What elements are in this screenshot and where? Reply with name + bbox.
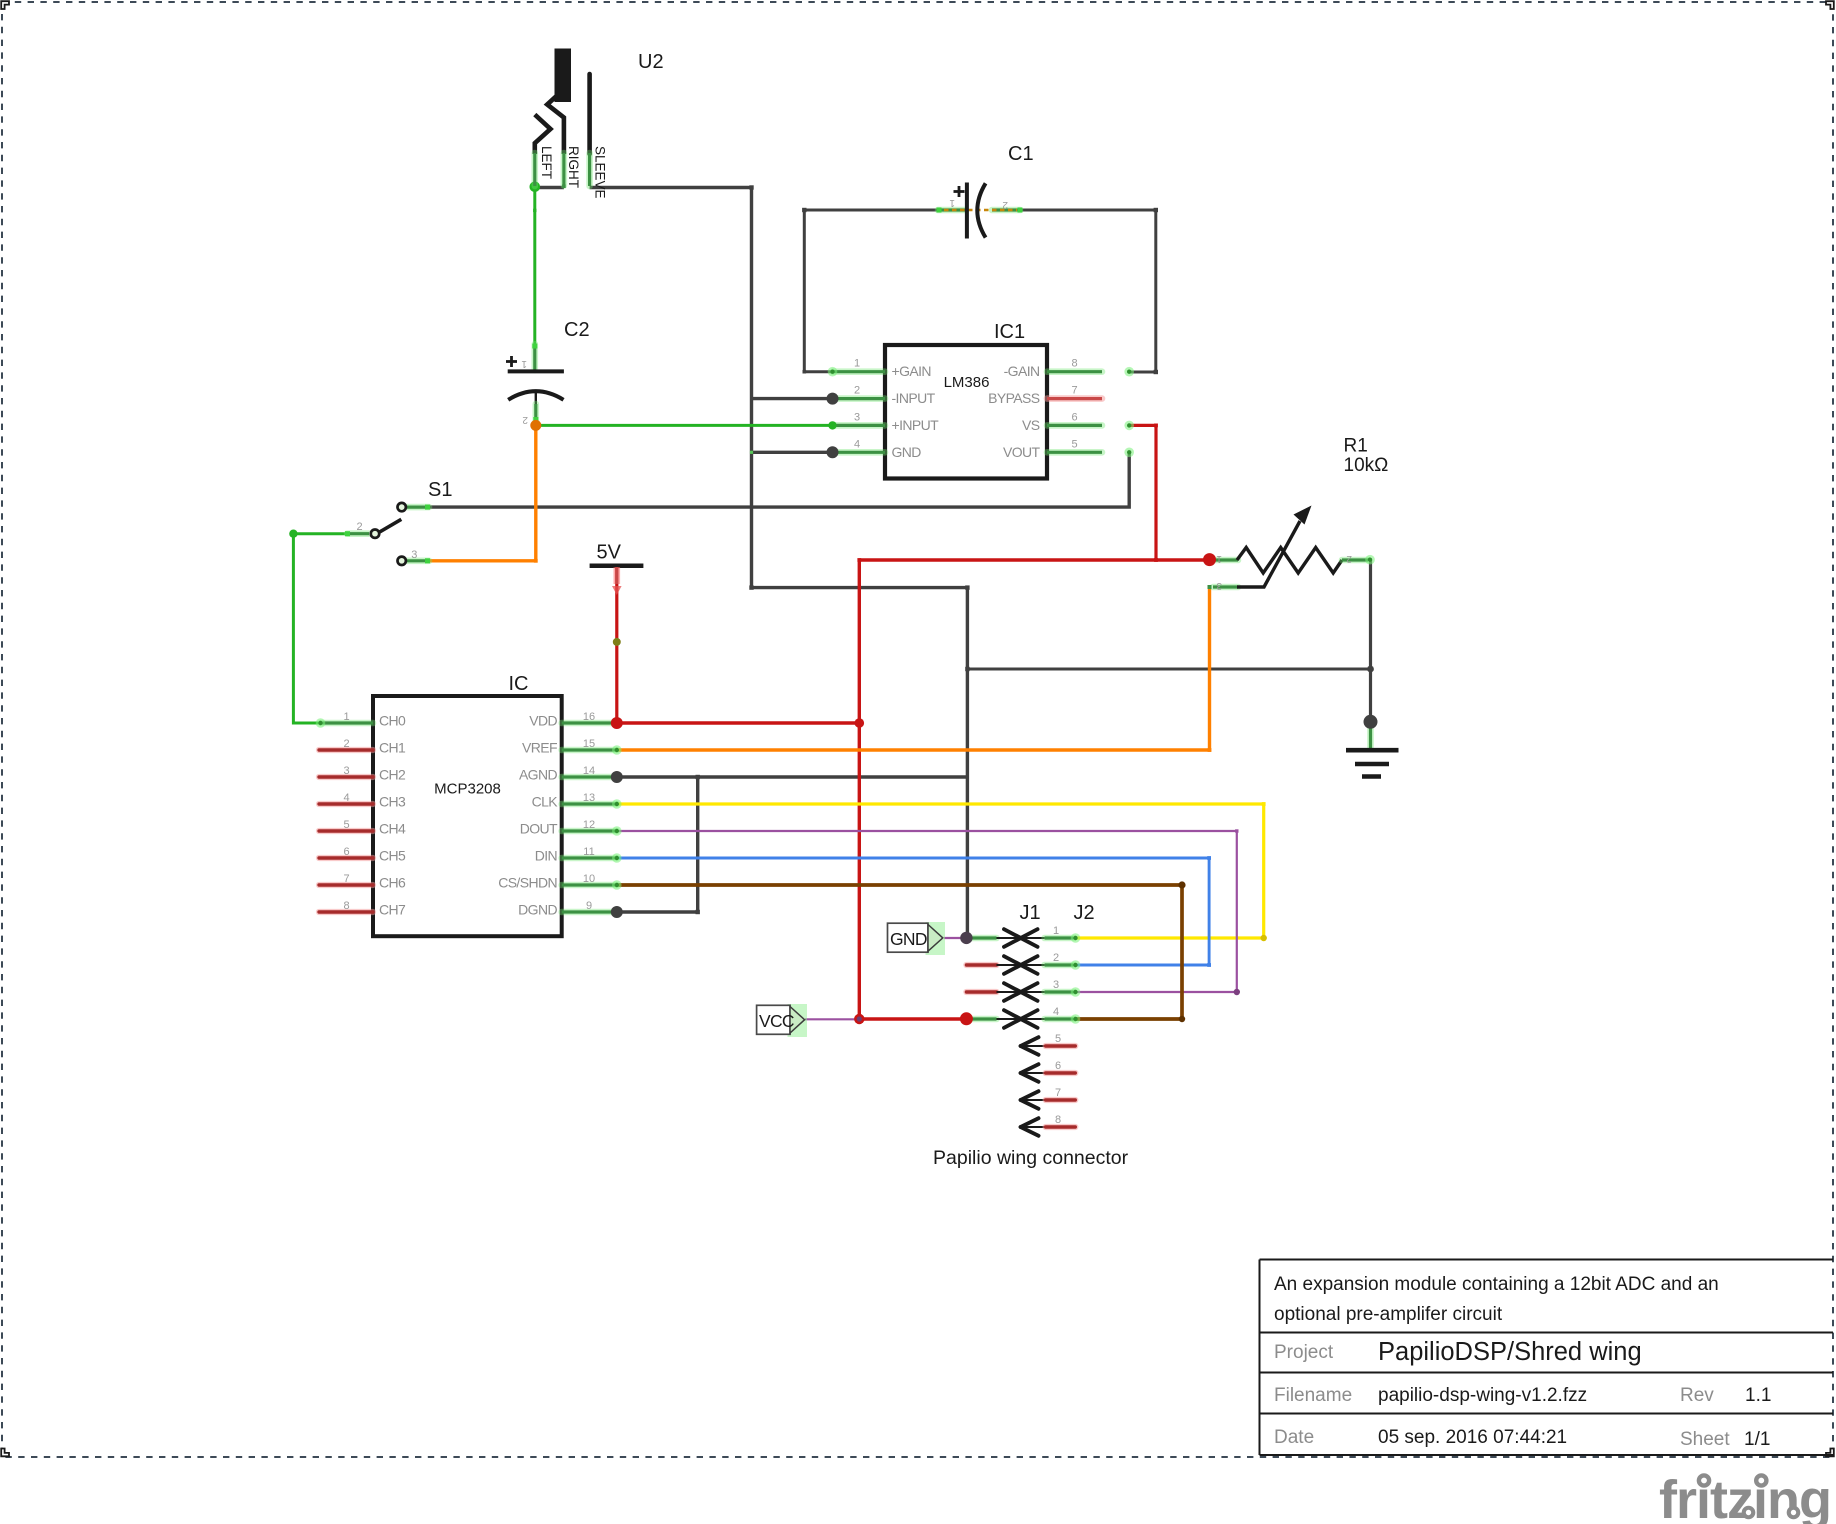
svg-text:CH4: CH4: [379, 821, 406, 837]
svg-text:C2: C2: [564, 319, 590, 341]
svg-text:U2: U2: [638, 51, 664, 73]
svg-text:Date: Date: [1274, 1427, 1314, 1448]
wire: green net C2 pin 2 to IC1 +INPUT pin 3: [536, 424, 833, 427]
svg-text:3: 3: [343, 765, 349, 777]
connector row 3: J1 pin 3 / J2 pin 3 (crossed arrows): [966, 983, 1080, 1001]
svg-text:Rev: Rev: [1680, 1385, 1714, 1406]
svg-text:+GAIN: +GAIN: [892, 363, 931, 379]
junction dot at IC1 +INPUT (green): [828, 421, 836, 429]
svg-text:3: 3: [854, 411, 860, 423]
svg-text:J1: J1: [1020, 902, 1041, 924]
op-amp IC1 LM386 body: [885, 345, 1047, 479]
IC pin 13 CLK: [562, 801, 617, 808]
wire: orange net MCP3208 VREF to R1 wiper pin 3: [617, 587, 1210, 750]
frame corner mark bottom-right: [1826, 1449, 1834, 1457]
5V power symbol: [590, 566, 644, 595]
IC pin 4 CH3: [319, 801, 373, 807]
svg-text:RIGHT: RIGHT: [566, 146, 581, 188]
svg-text:1.1: 1.1: [1745, 1385, 1771, 1406]
svg-text:7: 7: [1055, 1087, 1061, 1099]
svg-text:S1: S1: [428, 479, 452, 501]
junction dot VCC flag on red net: [854, 1014, 864, 1024]
frame corner mark bottom-left: [1, 1449, 9, 1457]
svg-text:LEFT: LEFT: [539, 146, 554, 179]
IC pin 11 DIN: [562, 855, 617, 862]
connector J2 pin 8 (arrow, unconnected): [1020, 1118, 1075, 1136]
IC pin 9 DGND: [562, 909, 617, 916]
IC wire-end markers right side: [316, 718, 326, 728]
svg-text:J2: J2: [1074, 902, 1095, 924]
wire: red net IC1 VS pin 6 branch: [1129, 425, 1156, 560]
IC1 pin 6 VS: [1047, 422, 1102, 429]
svg-text:-GAIN: -GAIN: [1004, 363, 1040, 379]
junction dot red bus at VDD row: [855, 718, 865, 728]
svg-text:CLK: CLK: [532, 794, 559, 810]
wire: purple net MCP3208 DOUT to J2 pin 3: [617, 831, 1237, 992]
wire: MCP3208 DGND to AGND: [617, 777, 698, 912]
frame corner mark top-right: [1826, 1, 1834, 9]
svg-text:8: 8: [1071, 358, 1077, 370]
svg-text:CH3: CH3: [379, 794, 406, 810]
IC pin 3 CH2: [319, 774, 373, 780]
junction dot red net at R1 pin 1: [1203, 553, 1216, 566]
svg-text:15: 15: [583, 738, 595, 750]
IC pin 10 CS/SHDN: [562, 882, 617, 889]
VCC net flag: [757, 1004, 807, 1037]
IC1 pin 8 -GAIN: [1047, 368, 1102, 375]
svg-text:2: 2: [1346, 553, 1352, 564]
svg-text:5V: 5V: [597, 542, 622, 564]
svg-text:10kΩ: 10kΩ: [1344, 455, 1389, 476]
svg-text:3: 3: [1216, 580, 1222, 591]
wire: red vertical bus to R1 pin1 / VCC row: [858, 560, 861, 1019]
frame corner mark top-left: [1, 1, 9, 9]
IC1 pin 5 VOUT: [1047, 449, 1102, 456]
wire: jack SLEEVE net to IC1 (sleeve ground bus): [590, 188, 968, 938]
wire: red VDD net to vertical bus x=859: [617, 721, 860, 724]
svg-text:SLEEVE: SLEEVE: [593, 146, 608, 199]
svg-text:GND: GND: [890, 929, 927, 949]
junction dot VCC red net / J1 pin 4: [960, 1012, 973, 1025]
wire: IC1 VOUT to switch S1 pin 1: [429, 452, 1129, 507]
svg-text:3: 3: [411, 549, 417, 561]
junction dot at IC1 GND: [827, 446, 839, 458]
IC1 pin 4 GND: [833, 449, 885, 456]
svg-text:8: 8: [343, 900, 349, 912]
svg-text:GND: GND: [892, 444, 922, 460]
IC pin 1 CH0: [321, 720, 373, 727]
wire: purple VCC flag to red net: [805, 1018, 859, 1020]
wire: R1 pin 2 down to ground junction: [1369, 560, 1372, 722]
svg-text:CH1: CH1: [379, 740, 406, 756]
svg-text:1: 1: [521, 358, 527, 369]
connector row 2: J1 pin 2 / J2 pin 2 (crossed arrows): [966, 956, 1080, 974]
IC1 pin 2 -INPUT: [833, 395, 885, 402]
IC1 pin 3 +INPUT: [833, 422, 885, 429]
capacitor C1: [937, 183, 1023, 239]
svg-text:VDD: VDD: [529, 713, 557, 729]
svg-text:CH2: CH2: [379, 767, 406, 783]
svg-text:2: 2: [343, 738, 349, 750]
svg-text:4: 4: [1053, 1006, 1059, 1018]
svg-text:Papilio wing connector: Papilio wing connector: [933, 1147, 1129, 1169]
svg-text:VOUT: VOUT: [1003, 444, 1041, 460]
svg-text:DGND: DGND: [518, 902, 557, 918]
junction dot at ground symbol: [1364, 715, 1378, 729]
wire: brown net MCP3208 CS/SHDN to J2 pin 4: [617, 885, 1182, 1019]
svg-text:4: 4: [854, 438, 860, 450]
capacitor C2: [506, 344, 564, 423]
IC pin 16 VDD: [562, 720, 617, 727]
svg-text:9: 9: [586, 900, 592, 912]
svg-text:16: 16: [583, 711, 595, 723]
svg-text:CH5: CH5: [379, 848, 406, 864]
connector J2 pin 5 (arrow, unconnected): [1020, 1037, 1075, 1055]
svg-text:Sheet: Sheet: [1680, 1429, 1730, 1450]
wire: purple GND flag to J1 pin 1: [944, 937, 966, 939]
svg-text:IC: IC: [509, 673, 529, 695]
svg-text:VCC: VCC: [759, 1011, 794, 1031]
svg-text:6: 6: [1055, 1060, 1061, 1072]
junction: S1 pin 2 green net: [289, 530, 297, 538]
connector J2 pin 7 (arrow, unconnected): [1020, 1091, 1075, 1109]
svg-text:6: 6: [1071, 411, 1077, 423]
svg-text:4: 4: [343, 792, 349, 804]
ADC IC MCP3208 body: [373, 696, 562, 936]
IC pin 6 CH5: [319, 855, 373, 861]
GND net flag: [888, 922, 946, 955]
svg-text:AGND: AGND: [519, 767, 558, 783]
svg-text:1: 1: [1216, 553, 1222, 564]
R1 wire-end markers: [1365, 555, 1375, 565]
svg-text:12: 12: [583, 819, 595, 831]
ground symbol: [1346, 726, 1399, 777]
svg-text:11: 11: [583, 846, 594, 858]
svg-text:3: 3: [1053, 979, 1059, 991]
svg-text:DOUT: DOUT: [520, 821, 558, 837]
svg-text:05 sep. 2016 07:44:21: 05 sep. 2016 07:44:21: [1378, 1427, 1567, 1448]
wire: red net to VCC flag junction: [859, 1017, 966, 1020]
wire: sleeve bus to IC1 GND pin 4: [752, 451, 834, 454]
svg-text:7: 7: [1071, 385, 1077, 397]
svg-text:VREF: VREF: [522, 740, 557, 756]
junction: C2 pin2 / +INPUT / orange net: [530, 420, 541, 431]
svg-text:CS/SHDN: CS/SHDN: [498, 875, 557, 891]
svg-text:optional pre-amplifer circuit: optional pre-amplifer circuit: [1274, 1304, 1503, 1325]
svg-text:5: 5: [1055, 1033, 1061, 1045]
junction: ground wire meets R1 pin2 wire: [1367, 666, 1374, 673]
fritzing logo: [1659, 1470, 1831, 1524]
svg-text:6: 6: [343, 846, 349, 858]
IC pin 7 CH6: [319, 882, 373, 888]
svg-text:BYPASS: BYPASS: [988, 390, 1040, 406]
svg-text:DIN: DIN: [535, 848, 557, 864]
svg-text:PapilioDSP/Shred wing: PapilioDSP/Shred wing: [1378, 1338, 1642, 1366]
svg-text:IC1: IC1: [994, 321, 1025, 343]
junction dot MCP3208 VDD (red): [611, 717, 623, 729]
junction dot MCP3208 DGND: [611, 906, 623, 918]
svg-text:2: 2: [1002, 199, 1008, 210]
svg-text:2: 2: [854, 385, 860, 397]
svg-text:1: 1: [1053, 925, 1059, 937]
wire: ground bus to potentiometer pin 2 / GND symbol: [967, 668, 1370, 671]
junction: 5V pin to red wire (olive marker): [613, 638, 621, 646]
svg-text:VS: VS: [1022, 417, 1040, 433]
IC1 pin 1 +GAIN: [833, 368, 885, 375]
IC pin 14 AGND: [562, 774, 617, 781]
IC pin 8 CH7: [319, 909, 373, 915]
svg-text:1: 1: [854, 358, 860, 370]
wire: blue net MCP3208 DIN to J2 pin 2: [617, 858, 1209, 965]
svg-text:2: 2: [1053, 952, 1059, 964]
switch S1: [345, 503, 430, 565]
svg-text:1: 1: [949, 197, 955, 208]
title block frame: [1260, 1260, 1834, 1456]
svg-text:C1: C1: [1008, 143, 1034, 165]
junction dot GND flag / J1 pin 1: [960, 932, 972, 944]
audio jack U2: [535, 49, 590, 189]
IC pin 5 CH4: [319, 828, 373, 834]
svg-text:1: 1: [343, 711, 349, 723]
svg-text:CH0: CH0: [379, 713, 406, 729]
svg-text:-INPUT: -INPUT: [892, 390, 936, 406]
IC pin 15 VREF: [562, 747, 617, 754]
svg-text:7: 7: [343, 873, 349, 885]
svg-text:MCP3208: MCP3208: [434, 781, 501, 798]
svg-text:+INPUT: +INPUT: [892, 417, 940, 433]
svg-text:5: 5: [1071, 438, 1077, 450]
potentiometer R1 10k: [1213, 506, 1368, 588]
svg-text:10: 10: [583, 873, 595, 885]
svg-text:An expansion module containing: An expansion module containing a 12bit A…: [1274, 1274, 1719, 1295]
wire: MCP3208 AGND to ground bus: [617, 775, 967, 778]
wire: jack LEFT to RIGHT pin segment: [535, 186, 564, 189]
wire: orange net C2 pin2 junction to switch S1 pin 3: [429, 425, 536, 560]
svg-text:8: 8: [1055, 1114, 1061, 1126]
connector J2 pin 6 (arrow, unconnected): [1020, 1064, 1075, 1082]
svg-text:1/1: 1/1: [1744, 1429, 1770, 1450]
IC1 pin 7 BYPASS (unconnected): [1047, 395, 1102, 402]
wire: green net jack LEFT to C2 pin 1: [533, 188, 536, 346]
svg-text:5: 5: [343, 819, 349, 831]
connector row 4: J1 pin 4 / J2 pin 4 (crossed arrows): [969, 1010, 1080, 1028]
wire: sleeve bus to IC1 -INPUT pin 2: [752, 397, 834, 400]
svg-text:LM386: LM386: [944, 374, 990, 391]
IC1 wire-end markers: [828, 367, 838, 377]
IC pin 12 DOUT: [562, 828, 617, 835]
junction: jack LEFT pin / C2 net: [530, 182, 541, 193]
svg-text:Filename: Filename: [1274, 1385, 1352, 1406]
svg-text:14: 14: [583, 765, 595, 777]
junction dot MCP3208 AGND: [611, 771, 623, 783]
connector row 1: J1 pin 1 / J2 pin 1 (crossed arrows): [969, 929, 1080, 947]
wire: red 5V supply to MCP3208 VDD: [615, 566, 618, 723]
junction dot at IC1 -INPUT: [827, 393, 839, 405]
svg-text:2: 2: [357, 521, 363, 533]
svg-text:13: 13: [583, 792, 595, 804]
svg-text:Project: Project: [1274, 1342, 1334, 1363]
svg-text:papilio-dsp-wing-v1.2.fzz: papilio-dsp-wing-v1.2.fzz: [1378, 1385, 1587, 1406]
IC pin 2 CH1: [319, 747, 373, 753]
wire: C1 left lead to IC1 +GAIN pin 1: [804, 210, 940, 372]
svg-text:CH6: CH6: [379, 875, 406, 891]
svg-text:2: 2: [522, 414, 528, 425]
wire: C1 right lead to IC1 -GAIN pin 8: [1019, 210, 1156, 372]
wire: green net switch S1 pin 2 to MCP3208 CH0: [293, 534, 347, 723]
wire: yellow net MCP3208 CLK to J2 pin 1: [617, 804, 1264, 938]
wire: red net horizontal to potentiometer R1 pin 1: [859, 558, 1209, 561]
svg-text:R1: R1: [1344, 436, 1368, 457]
svg-text:CH7: CH7: [379, 902, 406, 918]
